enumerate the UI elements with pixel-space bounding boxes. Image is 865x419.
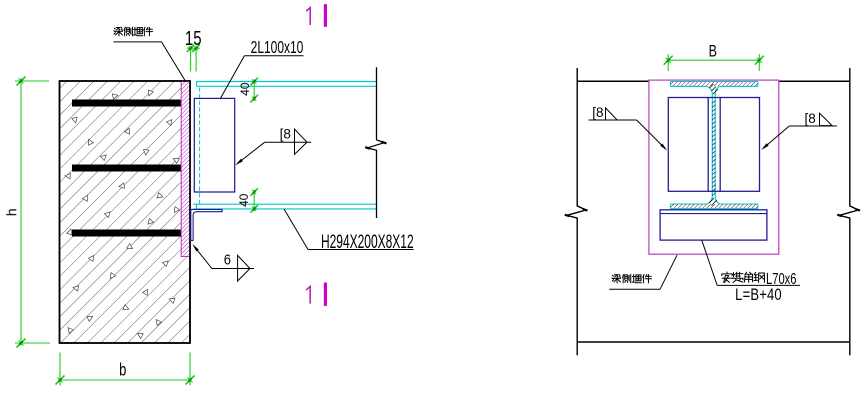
svg-text:[8: [8	[592, 104, 604, 120]
svg-text:[8: [8	[804, 110, 816, 126]
svg-text:15: 15	[185, 27, 202, 50]
svg-text:h: h	[3, 208, 19, 216]
svg-text:b: b	[119, 361, 126, 380]
svg-text:L=B+40: L=B+40	[735, 287, 782, 305]
svg-text:6: 6	[224, 251, 231, 268]
svg-text:L70x6: L70x6	[766, 270, 796, 287]
svg-text:2L100x10: 2L100x10	[251, 38, 304, 58]
svg-text:40: 40	[238, 82, 252, 96]
svg-text:B: B	[709, 43, 717, 61]
svg-text:[8: [8	[280, 125, 292, 141]
svg-text:40: 40	[237, 193, 251, 207]
